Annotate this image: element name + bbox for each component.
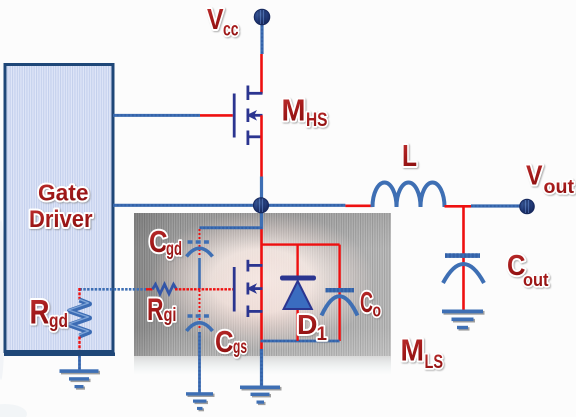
svg-text:C: C bbox=[149, 225, 168, 259]
svg-text:out: out bbox=[544, 177, 575, 198]
svg-text:gs: gs bbox=[233, 337, 247, 358]
svg-text:V: V bbox=[207, 4, 224, 36]
svg-text:M: M bbox=[282, 94, 306, 128]
svg-text:C: C bbox=[215, 325, 234, 359]
svg-text:cc: cc bbox=[223, 20, 239, 41]
svg-text:1: 1 bbox=[317, 324, 328, 345]
svg-text:C: C bbox=[360, 287, 373, 319]
svg-text:gd: gd bbox=[166, 239, 182, 260]
svg-text:Gate: Gate bbox=[38, 180, 89, 206]
svg-text:Driver: Driver bbox=[29, 206, 93, 233]
svg-text:gd: gd bbox=[49, 310, 68, 332]
svg-text:M: M bbox=[401, 334, 425, 368]
svg-text:L: L bbox=[402, 139, 417, 173]
svg-text:out: out bbox=[523, 269, 549, 290]
svg-text:LS: LS bbox=[425, 352, 444, 373]
svg-text:R: R bbox=[30, 294, 50, 332]
svg-text:gi: gi bbox=[164, 305, 177, 326]
svg-text:V: V bbox=[526, 160, 543, 191]
svg-text:R: R bbox=[147, 291, 164, 327]
svg-text:o: o bbox=[373, 300, 382, 321]
svg-text:D: D bbox=[297, 309, 318, 340]
svg-text:HS: HS bbox=[306, 109, 328, 131]
